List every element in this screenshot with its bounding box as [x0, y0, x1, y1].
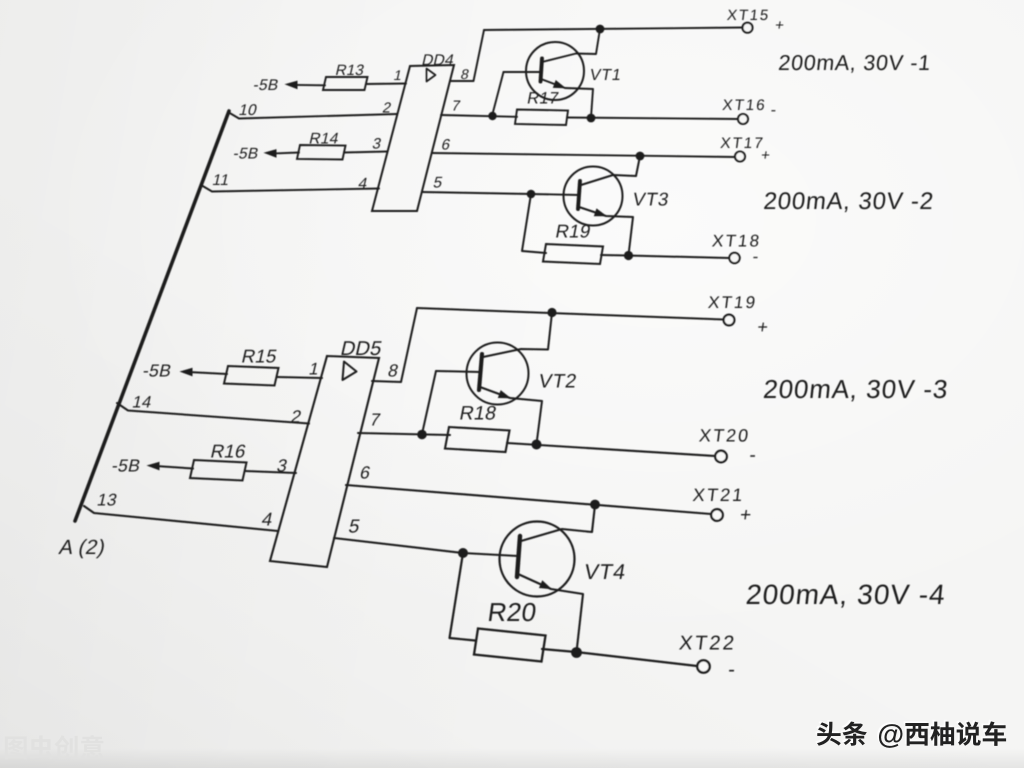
svg-text:VT1: VT1 [588, 66, 623, 84]
transistor VT3 circle [564, 167, 623, 226]
wire DD5 pin 7 to R18 [358, 433, 450, 435]
svg-text:+: + [774, 17, 785, 34]
svg-text:7: 7 [368, 410, 383, 430]
resistor R17 [515, 110, 568, 126]
svg-text:-: - [727, 659, 737, 681]
resistor R18 [445, 427, 510, 452]
terminal XT18 [729, 253, 739, 263]
VT1 base wire [504, 71, 541, 73]
VT1 collector path [542, 29, 600, 62]
wire R13 to DD4 pin 1 [367, 83, 406, 86]
svg-text:200mA, 30V -2: 200mA, 30V -2 [762, 188, 935, 215]
svg-text:6: 6 [440, 137, 453, 154]
svg-text:-: - [748, 445, 758, 466]
svg-text:DD5: DD5 [338, 338, 384, 360]
terminal XT15 [743, 23, 753, 33]
svg-text:3: 3 [371, 136, 384, 153]
resistor R13 [323, 77, 368, 90]
svg-text:4: 4 [357, 176, 370, 193]
VT1 emitter arrow [553, 80, 566, 88]
terminal XT21 [711, 509, 723, 521]
VT2 base bar [479, 354, 482, 390]
svg-text:-: - [751, 247, 760, 266]
watermark 头条 @西柚说车 [815, 720, 1004, 746]
VT1 emitter path [541, 79, 593, 118]
VT1 base bar [541, 59, 543, 82]
svg-text:A (2): A (2) [57, 536, 108, 559]
resistor R20 [474, 629, 546, 662]
junction dot R17 right [587, 114, 596, 123]
wire to XT22 [576, 652, 697, 666]
VT4 emitter arrow [539, 580, 552, 589]
svg-text:R20: R20 [486, 597, 539, 627]
wire XT15 net top [484, 28, 743, 31]
buffer triangle symbol (DD5) [343, 362, 357, 381]
wire 10 from bus to DD4 pin 2 [228, 112, 397, 119]
wire R15 to DD5 pin 1 [277, 377, 322, 378]
watermark 图虫创意 [5, 735, 104, 759]
svg-text:VT2: VT2 [537, 371, 579, 393]
IC DD5 body [270, 356, 379, 567]
resistor R16 [190, 460, 247, 481]
svg-text:6: 6 [358, 463, 373, 483]
svg-text:R13: R13 [334, 62, 366, 79]
junction dot on XT19 net [547, 308, 556, 317]
wire DD5 pin 8 up to XT19 net [372, 308, 417, 382]
svg-text:-: - [770, 101, 778, 119]
VT4 collector path [521, 505, 595, 541]
junction dot on XT17 net [636, 152, 645, 161]
svg-text:XT16: XT16 [721, 97, 767, 114]
junction dot on XT21 net [590, 500, 600, 510]
wire DD4 pin 7 to R17 [441, 115, 517, 117]
power -5B arrow (R16) [147, 462, 160, 471]
junction dot R19 right [624, 251, 633, 260]
resistor R15 [224, 366, 279, 386]
svg-text:XT20: XT20 [698, 426, 751, 446]
junction dot R20 right [571, 647, 582, 658]
svg-text:R19: R19 [554, 221, 593, 242]
svg-text:+: + [739, 505, 753, 526]
svg-text:VT4: VT4 [582, 559, 628, 584]
wire R18 to XT20 [507, 443, 715, 456]
junction dot R18 left [417, 430, 427, 440]
terminal XT17 [735, 152, 745, 162]
svg-text:R18: R18 [458, 403, 499, 425]
power -5B arrow (R13) [285, 81, 298, 90]
svg-text:-5B: -5B [141, 361, 174, 381]
svg-text:DD4: DD4 [420, 52, 456, 69]
junction dot on XT15 net [596, 25, 605, 34]
svg-text:-5B: -5B [232, 146, 261, 163]
svg-text:8: 8 [386, 361, 401, 381]
buffer triangle symbol (DD4) [427, 69, 436, 82]
svg-text:10: 10 [237, 102, 259, 119]
VT4 base wire [463, 553, 518, 556]
svg-text:1: 1 [307, 359, 321, 379]
svg-text:5: 5 [346, 517, 362, 538]
VT2 base wire [436, 371, 480, 372]
transistor VT2 circle [467, 343, 529, 405]
svg-text:200mA, 30V -3: 200mA, 30V -3 [762, 374, 950, 404]
svg-text:5: 5 [432, 175, 445, 192]
junction dot R18 right [532, 440, 542, 450]
svg-text:+: + [756, 317, 770, 337]
IC DD4 body [372, 65, 454, 211]
wire R14 to DD4 pin 3 [344, 152, 387, 153]
VT2 collector path [483, 313, 552, 358]
transistor VT4 circle [500, 522, 575, 597]
resistor R19 [543, 244, 603, 264]
terminal XT16 [738, 114, 748, 124]
junction dot VT4 base node [458, 548, 468, 558]
wire R20 to XT22 junction [542, 649, 576, 652]
terminal XT20 [715, 451, 727, 463]
svg-text:R15: R15 [240, 346, 280, 367]
VT2 emitter arrow [498, 390, 511, 398]
wire 14 from bus to DD5 pin 2 [117, 403, 309, 424]
svg-text:+: + [760, 147, 771, 164]
wire to XT18 [628, 256, 729, 259]
wire R19 to XT18 junction [601, 254, 628, 257]
svg-text:11: 11 [211, 172, 232, 189]
svg-text:R17: R17 [526, 89, 561, 108]
svg-text:-5B: -5B [252, 77, 281, 94]
VT1 base vertical to R17 left node [492, 72, 504, 116]
resistor R14 [297, 145, 346, 160]
svg-text:XT21: XT21 [692, 485, 746, 505]
svg-text:1: 1 [392, 68, 404, 84]
VT3 emitter arrow [594, 208, 607, 216]
VT3 base bar [578, 181, 580, 209]
VT2 base vertical to R18 left node [422, 371, 436, 434]
transistor VT1 circle [526, 42, 584, 100]
VT4 base bar [517, 536, 520, 577]
VT2 emitter path [480, 387, 542, 444]
svg-text:7: 7 [450, 99, 462, 115]
wire 11 from bus to DD4 pin 4 [201, 185, 379, 192]
svg-text:XT22: XT22 [678, 633, 738, 655]
svg-text:XT15: XT15 [726, 7, 771, 24]
wire DD4 pin 6 to XT17 [432, 153, 735, 157]
bus line A(2) [75, 111, 229, 521]
svg-text:-5B: -5B [110, 456, 143, 476]
svg-text:XT19: XT19 [707, 293, 758, 312]
VT3 emitter path [579, 207, 633, 255]
wire VT4 base node down to R20 [450, 553, 476, 641]
wire R17 to XT16 [567, 118, 738, 120]
VT4 emitter path [518, 574, 583, 652]
terminal XT19 [724, 315, 735, 326]
VT3 base wire [531, 194, 579, 195]
VT3 collector path [581, 156, 640, 185]
svg-text:R14: R14 [307, 131, 340, 148]
wire VT3 base node down to R19 [522, 194, 546, 253]
junction dot R17 left [488, 112, 496, 120]
wire XT19 net [417, 308, 724, 320]
svg-text:14: 14 [131, 393, 154, 412]
wire DD5 pin 6 to XT21 [346, 485, 711, 514]
wire R16 to DD5 pin 3 [245, 471, 296, 473]
svg-text:200mA, 30V -4: 200mA, 30V -4 [745, 579, 948, 610]
wire 13 from bus to DD5 pin 4 [84, 506, 278, 531]
power -5B arrow (R15) [180, 368, 193, 377]
junction dot VT3 base node [527, 190, 536, 199]
svg-text:XT17: XT17 [719, 135, 765, 152]
svg-text:200mA, 30V -1: 200mA, 30V -1 [777, 50, 932, 75]
wire DD4 pin 8 up to XT15 net [450, 30, 484, 81]
wire DD4 pin 5 to VT3 base node [422, 192, 531, 194]
svg-text:VT3: VT3 [631, 189, 671, 210]
svg-text:4: 4 [260, 509, 275, 530]
svg-text:R16: R16 [209, 441, 249, 462]
power -5B arrow (R14) [264, 149, 277, 158]
terminal XT22 [697, 660, 709, 672]
wire DD5 pin 5 to VT4 base node [334, 538, 463, 553]
svg-text:13: 13 [95, 490, 119, 510]
